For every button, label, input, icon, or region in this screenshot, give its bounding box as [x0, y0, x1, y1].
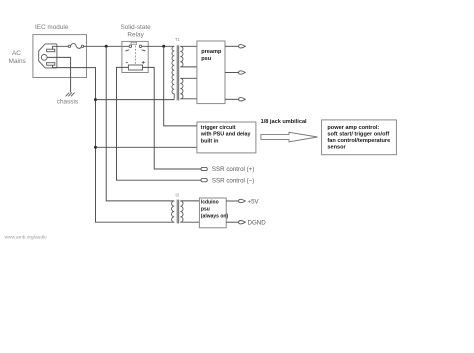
lcduino psu box: [199, 198, 226, 228]
IEC module box: [33, 35, 87, 78]
SSR coil plus sign: [142, 61, 145, 64]
transformer T1 primary winding: [172, 46, 174, 99]
fuse F1: [68, 45, 70, 47]
svg-text:preamp: preamp: [201, 49, 222, 55]
transformer T1 core: [177, 45, 179, 100]
wire: hot bus down to T3 primary top: [106, 46, 174, 201]
wire: preamp psu output 3: [225, 98, 239, 100]
node: neutral tap to trigger: [94, 146, 97, 149]
svg-text:trigger circuit: trigger circuit: [201, 125, 236, 131]
IEC pin N (bottom slot): [47, 63, 55, 65]
svg-text:Relay: Relay: [127, 31, 144, 38]
svg-text:Solid-state: Solid-state: [120, 24, 151, 31]
terminal: DGND: [239, 221, 246, 224]
preamp psu box: [197, 41, 225, 104]
wire: SSR coil minus to SSR control terminal: [117, 67, 202, 180]
svg-text:SSR control (+): SSR control (+): [212, 166, 254, 173]
wire: neutral bus to trigger circuit input 2: [96, 146, 197, 148]
node: neutral tap to T1: [94, 98, 97, 101]
umbilical block arrow: [261, 132, 318, 142]
SSR actuator dashed line: [134, 46, 136, 65]
wire: SSR output to T1 primary top: [142, 45, 174, 47]
node: hot always-on tap: [105, 45, 108, 48]
svg-text:with PSU and delay: with PSU and delay: [200, 132, 251, 138]
wire: DGND output: [226, 221, 238, 223]
svg-text:IEC module: IEC module: [35, 24, 69, 31]
transformer T3 primary winding: [172, 201, 175, 222]
power amp control box: [322, 120, 397, 155]
terminal: SSR control plus: [201, 167, 207, 170]
node: post-SSR tap to trigger: [162, 45, 165, 48]
IEC pin L (top slot): [47, 49, 55, 52]
terminal: preamp output 2: [239, 71, 246, 74]
transformer T3 secondary winding: [180, 201, 183, 222]
SSR coil minus sign: [126, 61, 128, 63]
svg-text:sensor: sensor: [327, 145, 346, 151]
wire: T1 sec2- to preamp psu: [180, 98, 197, 100]
wire: fuse to SSR input: [84, 45, 129, 47]
transformer T1 secondary winding top: [180, 46, 183, 67]
SSR contact terminal left: [129, 45, 132, 48]
IEC inlet connector outline: [39, 44, 57, 68]
svg-text:T1: T1: [175, 37, 181, 42]
svg-text:chassis: chassis: [57, 98, 78, 105]
svg-text:soft start/ trigger on/off: soft start/ trigger on/off: [327, 132, 389, 138]
wire: preamp psu output 1: [225, 45, 239, 47]
IEC pin ground (circle): [41, 55, 47, 61]
svg-text:DGND: DGND: [248, 220, 267, 227]
svg-text:+5V: +5V: [248, 198, 260, 205]
SSR blade left: [126, 50, 130, 52]
svg-text:(always on): (always on): [201, 214, 229, 220]
terminal: preamp output 1: [239, 45, 246, 48]
SSR contact terminal right: [139, 45, 142, 48]
svg-text:www.amb.org/audio: www.amb.org/audio: [5, 234, 47, 240]
transformer T1 secondary winding bottom: [180, 78, 183, 99]
svg-text:psu: psu: [201, 56, 212, 62]
wire: T1 sec1+ to preamp psu: [180, 45, 197, 47]
wire: post-SSR down to trigger circuit input 1: [164, 46, 197, 126]
svg-text:1/8 jack umbilical: 1/8 jack umbilical: [261, 119, 307, 125]
wire: SSR coil plus to SSR control terminal: [143, 67, 202, 169]
wire: neutral pin down, neutral bus to T3 primary bottom: [53, 65, 175, 222]
wire: T1 sec2+ to preamp psu: [180, 77, 197, 79]
svg-text:SSR control (−): SSR control (−): [212, 177, 254, 184]
svg-text:psu: psu: [201, 207, 210, 213]
wire: +5V output: [226, 200, 238, 202]
chassis ground symbol: [66, 93, 75, 97]
wire: T1 primary bottom to neutral bus: [96, 99, 175, 101]
trigger circuit box: [197, 122, 256, 153]
svg-text:Mains: Mains: [9, 58, 26, 65]
svg-text:fan control/temperature: fan control/temperature: [327, 138, 390, 144]
svg-text:power amp control:: power amp control:: [327, 125, 379, 131]
terminal: +5V: [239, 199, 246, 202]
svg-text:lcduino: lcduino: [201, 199, 219, 205]
solid-state relay U1 box: [122, 41, 148, 72]
wire: line pin stub to fuse: [53, 46, 69, 49]
wire: T3 secondary top to lcduino psu: [180, 200, 199, 202]
wire: T1 sec1- to preamp psu: [180, 66, 197, 68]
SSR coil box: [128, 65, 142, 70]
svg-text:built in: built in: [201, 138, 219, 144]
svg-text:AC: AC: [12, 50, 21, 57]
transformer T3 core: [177, 200, 179, 224]
terminal: preamp output 3: [239, 98, 246, 101]
SSR top tiny label rect: [131, 42, 137, 44]
SSR blade right: [142, 50, 146, 52]
wire: preamp psu output 2: [225, 72, 239, 74]
wire: ground pin to chassis: [47, 57, 70, 92]
terminal: SSR control minus: [201, 179, 207, 182]
wire: T3 secondary bottom to lcduino psu: [180, 221, 199, 223]
